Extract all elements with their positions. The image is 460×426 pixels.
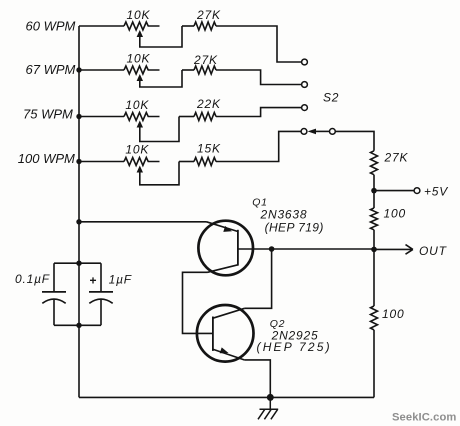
junction: capacitor bottom node bbox=[76, 323, 81, 328]
junction: bus to Q1 emitter wire bbox=[76, 219, 81, 224]
potentiometer R1 wiper arrow bbox=[137, 30, 143, 37]
wire: row2 pot to resistor bbox=[182, 69, 194, 71]
wire: row1 pot to resistor bbox=[182, 25, 194, 27]
potentiometer R1 10K body bbox=[124, 22, 160, 30]
svg-text:SeekIC.com: SeekIC.com bbox=[392, 412, 456, 424]
transistor Q1 base bar bbox=[237, 230, 239, 266]
svg-text:10K: 10K bbox=[127, 52, 151, 66]
ground symbol bbox=[258, 397, 278, 419]
wire: row1 wiper jumper bbox=[140, 26, 182, 47]
terminal +5V circle bbox=[414, 188, 420, 194]
wire: 27K to +5V node bbox=[373, 175, 375, 191]
resistor R6 27K row2 bbox=[194, 66, 216, 74]
svg-text:0.1µF: 0.1µF bbox=[15, 272, 50, 286]
svg-text:75 WPM: 75 WPM bbox=[23, 107, 73, 122]
wire: Q1 collector down to Q2 base bbox=[183, 272, 213, 333]
junction: +5V node bbox=[371, 188, 377, 194]
wire: row4 wiper jumper bbox=[140, 162, 179, 185]
wire: row4 resistor to switch contact bbox=[216, 131, 301, 161]
wire: row1 resistor to switch contact bbox=[216, 26, 302, 62]
wire: bus to Q1 emitter bbox=[79, 221, 207, 223]
transistor Q2 emitter arrowhead (NPN) bbox=[220, 347, 229, 353]
transistor Q1 collector diagonal bbox=[208, 265, 238, 273]
wire: capacitor bottom bbox=[54, 324, 101, 326]
wire: row3 pot to resistor bbox=[179, 116, 194, 118]
wire: switch pole to rail bbox=[335, 131, 374, 150]
svg-text:(HEP 719): (HEP 719) bbox=[265, 221, 324, 235]
wire: left vertical bus bbox=[78, 26, 80, 397]
transistor Q2 emitter diagonal bbox=[213, 349, 244, 360]
wire: row4 pot to resistor bbox=[179, 161, 194, 163]
junction: capacitor top node bbox=[76, 261, 81, 266]
svg-text:2N3638: 2N3638 bbox=[260, 208, 308, 222]
transistor Q2 circle bbox=[197, 305, 254, 362]
svg-text:S2: S2 bbox=[323, 91, 339, 105]
potentiometer R4 wiper arrow bbox=[137, 166, 143, 173]
transistor Q2 collector diagonal bbox=[213, 308, 245, 318]
wire: row2 resistor to switch contact bbox=[216, 70, 302, 85]
wire: capacitor top bbox=[54, 262, 101, 264]
wire: row2 from bus to pot bbox=[79, 69, 124, 71]
wire: row2 wiper jumper bbox=[140, 70, 182, 87]
transistor Q1 circle bbox=[198, 221, 253, 276]
wire: switch wiper shaft bbox=[316, 130, 330, 132]
wire: 100 to OUT node bbox=[373, 230, 375, 250]
svg-text:60 WPM: 60 WPM bbox=[26, 18, 76, 33]
svg-text:+: + bbox=[90, 274, 98, 288]
resistor R7 22K row3 bbox=[194, 113, 216, 121]
wire: Q2 emitter to ground rail bbox=[244, 360, 270, 398]
svg-text:27K: 27K bbox=[193, 53, 218, 67]
potentiometer R3 wiper arrow bbox=[137, 121, 143, 128]
wire: OUT node to lower 100 bbox=[373, 249, 375, 306]
wire: OUT arrow bbox=[374, 245, 413, 255]
resistor R9 27K vertical bbox=[371, 151, 378, 175]
capacitor C1 0.1uF bbox=[53, 263, 55, 325]
wire: row4 from bus to pot bbox=[79, 161, 124, 163]
svg-text:22K: 22K bbox=[196, 97, 221, 111]
potentiometer R2 10K body bbox=[124, 66, 160, 74]
resistor R5 27K row1 bbox=[194, 22, 216, 30]
svg-text:(HEP 725): (HEP 725) bbox=[257, 340, 332, 354]
potentiometer R4 10K body bbox=[124, 158, 160, 166]
wire: row3 from bus to pot bbox=[79, 116, 124, 118]
switch S2 wiper arrowhead bbox=[308, 129, 316, 135]
svg-text:10K: 10K bbox=[127, 8, 151, 22]
svg-text:27K: 27K bbox=[384, 151, 409, 165]
transistor Q1 emitter diagonal bbox=[207, 222, 238, 232]
svg-text:27K: 27K bbox=[196, 8, 221, 22]
wire: row3 resistor to switch contact bbox=[216, 108, 302, 117]
resistor R11 100 lower bbox=[371, 306, 378, 330]
svg-text:100 WPM: 100 WPM bbox=[18, 151, 75, 166]
resistor R10 100 upper bbox=[371, 208, 378, 230]
svg-text:10K: 10K bbox=[125, 98, 149, 112]
capacitor C2 1uF bbox=[100, 263, 102, 325]
potentiometer R2 wiper arrow bbox=[137, 74, 143, 81]
svg-text:+5V: +5V bbox=[424, 185, 448, 199]
junction: Q1 base / Q2 collector node bbox=[269, 246, 275, 252]
svg-text:100: 100 bbox=[382, 307, 404, 321]
potentiometer R3 10K body bbox=[124, 113, 160, 121]
wire: node to +5V terminal bbox=[374, 190, 414, 192]
svg-text:10K: 10K bbox=[125, 143, 149, 157]
switch S2 pole circle bbox=[330, 129, 336, 135]
transistor Q2 base bar bbox=[212, 317, 214, 351]
junction: bus row4 bbox=[76, 159, 81, 164]
switch S2 contact 2 bbox=[302, 82, 308, 88]
junction: bus row3 bbox=[76, 114, 81, 119]
wire: +5V node to 100 resistor bbox=[373, 191, 375, 208]
wire: Q1 base lead to rail bbox=[238, 248, 374, 250]
wire: Q2 collector to node bbox=[245, 249, 272, 308]
switch S2 contact 1 bbox=[302, 59, 308, 65]
wire: row3 wiper jumper bbox=[140, 117, 179, 142]
svg-text:1µF: 1µF bbox=[109, 273, 132, 287]
switch S2 contact 4 bbox=[301, 129, 307, 135]
junction: ground node on bottom rail bbox=[267, 394, 274, 401]
wire: row1 from bus to pot bbox=[79, 25, 124, 27]
junction: bus row2 bbox=[76, 67, 81, 72]
transistor Q1 emitter arrowhead (PNP) bbox=[223, 226, 232, 232]
svg-text:OUT: OUT bbox=[419, 244, 448, 258]
svg-text:15K: 15K bbox=[197, 142, 221, 156]
svg-text:67 WPM: 67 WPM bbox=[26, 62, 76, 77]
junction: OUT node bbox=[371, 247, 377, 253]
resistor R8 15K row4 bbox=[194, 158, 216, 166]
wire: bottom ground rail bbox=[79, 396, 374, 398]
svg-text:100: 100 bbox=[384, 207, 406, 221]
switch S2 contact 3 bbox=[302, 105, 308, 111]
wire: lower 100 to bottom rail bbox=[373, 330, 375, 398]
